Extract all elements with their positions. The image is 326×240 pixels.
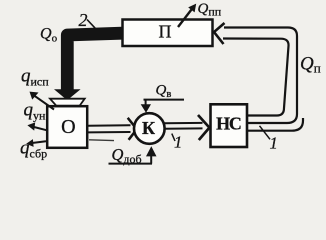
Qv underline wire bbox=[144, 99, 185, 101]
tick for label 1 near K bbox=[172, 134, 175, 141]
arrowhead into NS left bbox=[198, 115, 209, 140]
Qv drop wire into K bbox=[145, 100, 147, 106]
wire O to K lower bbox=[88, 131, 131, 133]
artifact short line under O outlet bbox=[89, 139, 114, 142]
arrow q_isp bbox=[35, 96, 55, 110]
svg-text:Qпп: Qпп bbox=[198, 1, 222, 19]
arrowhead into K left bbox=[128, 118, 137, 140]
wire O to K upper bbox=[88, 124, 131, 127]
wire Qp return inner (NS to P) bbox=[223, 39, 289, 116]
mixer K circle bbox=[134, 113, 165, 144]
arrow Qpp (losses from P) bbox=[178, 10, 192, 28]
arrowhead Qdob into K bottom bbox=[146, 146, 157, 156]
wire K to NS lower bbox=[164, 127, 203, 129]
arrow q_sbr bbox=[32, 141, 46, 143]
block P bbox=[123, 20, 213, 47]
wire Qp return outer (NS to P) bbox=[224, 28, 297, 124]
tick for label 1 right of NS bbox=[260, 126, 271, 140]
svg-text:О: О bbox=[61, 116, 75, 138]
thick pipe 2 (Qo feed line) bbox=[67, 33, 122, 89]
tick for label 2 bbox=[87, 20, 95, 29]
block O bbox=[47, 106, 87, 148]
background paper bbox=[0, 0, 326, 172]
svg-text:К: К bbox=[142, 118, 155, 138]
svg-text:2: 2 bbox=[79, 10, 88, 30]
arrowhead into P right side bbox=[214, 23, 225, 44]
wire return outermost stub (NS lower outlet merging into riser) bbox=[247, 118, 303, 131]
svg-text:П: П bbox=[159, 22, 172, 42]
Qdob underline wire bbox=[109, 163, 153, 165]
arrowhead of pipe 2 into funnel bbox=[54, 89, 81, 100]
block NS bbox=[211, 104, 248, 147]
arrow q_un bbox=[33, 127, 47, 131]
svg-text:НС: НС bbox=[216, 114, 241, 134]
Qdob riser wire into K bbox=[150, 156, 152, 164]
funnel on top of O bbox=[50, 99, 85, 106]
arrowhead Qv into K top bbox=[141, 104, 151, 113]
svg-text:1: 1 bbox=[174, 133, 182, 152]
svg-text:1: 1 bbox=[270, 134, 278, 153]
wire K to NS upper bbox=[164, 122, 203, 124]
